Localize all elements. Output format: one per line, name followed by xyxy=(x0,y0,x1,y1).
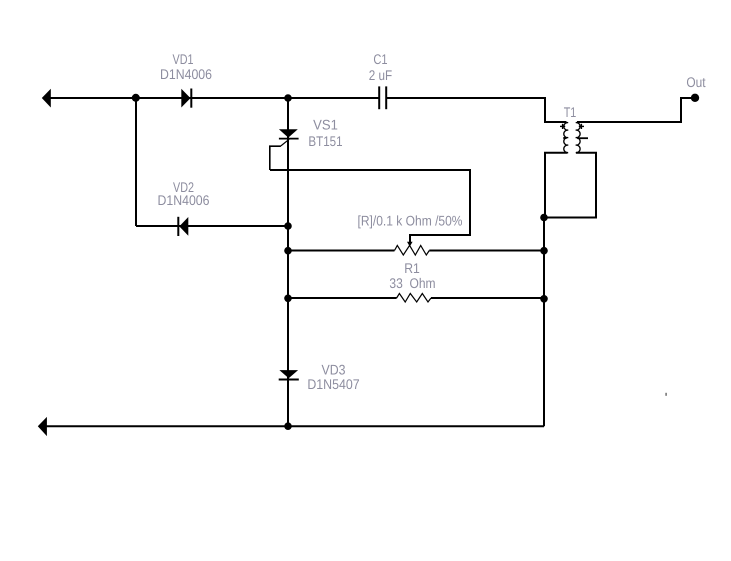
resistor R1 xyxy=(288,294,544,303)
tap stub right xyxy=(577,137,588,139)
node junction VD2-main xyxy=(284,222,292,230)
potentiometer [R] xyxy=(288,245,544,255)
node junction R1 left xyxy=(284,295,292,303)
wire right bus vertical xyxy=(543,218,545,427)
node junction at x=136 top xyxy=(132,94,140,102)
transformer T1 xyxy=(564,123,580,153)
svg-text:VD1: VD1 xyxy=(173,51,194,67)
terminal Out xyxy=(691,94,699,102)
wire cap to transformer xyxy=(386,98,566,122)
svg-text:T1: T1 xyxy=(564,104,577,120)
wiper arrow xyxy=(407,242,413,247)
svg-text:33 Ohm: 33 Ohm xyxy=(389,275,435,291)
wire primary bottom loop xyxy=(545,153,568,218)
node junction R1 right xyxy=(540,295,548,303)
wire gate path xyxy=(270,139,289,170)
svg-text:D1N5407: D1N5407 xyxy=(307,376,359,392)
wire bottom xyxy=(40,425,544,427)
wire gate horizontal xyxy=(270,170,470,242)
svg-text:2 uF: 2 uF xyxy=(369,67,392,83)
wire VD2 horizontal xyxy=(136,225,288,227)
wire secondary bottom loop xyxy=(544,153,596,218)
diode VD2 xyxy=(178,217,188,236)
svg-text:BT151: BT151 xyxy=(308,133,342,149)
wire top left horizontal xyxy=(44,97,379,99)
polarity plus right xyxy=(579,124,584,129)
node junction bottom xyxy=(284,422,292,430)
node junction pot left xyxy=(284,247,292,255)
primary winding xyxy=(564,123,568,153)
wire main vertical xyxy=(287,98,289,426)
thyristor VS1 xyxy=(279,129,299,138)
node junction pot right xyxy=(540,247,548,255)
polarity plus left xyxy=(560,124,565,129)
svg-text:C1: C1 xyxy=(373,51,387,67)
input arrow top xyxy=(42,89,51,108)
diode VD3 xyxy=(279,370,299,379)
svg-text:[R]/0.1 k Ohm /50%: [R]/0.1 k Ohm /50% xyxy=(358,213,463,229)
diode VD1 xyxy=(181,89,191,108)
wire left branch vertical xyxy=(135,98,137,226)
tap dash left xyxy=(563,137,566,139)
output arrow bottom xyxy=(38,417,47,436)
wire secondary top to Out xyxy=(577,98,693,122)
svg-text:D1N4006: D1N4006 xyxy=(158,192,210,208)
secondary winding xyxy=(576,123,580,153)
stray mark xyxy=(665,393,667,396)
node junction top main xyxy=(284,94,292,102)
svg-text:VS1: VS1 xyxy=(313,117,338,133)
svg-text:D1N4006: D1N4006 xyxy=(160,66,212,82)
node junction secondary return xyxy=(540,214,548,222)
svg-text:Out: Out xyxy=(686,74,705,90)
capacitor C1 xyxy=(379,86,386,109)
svg-text:R1: R1 xyxy=(404,260,420,276)
